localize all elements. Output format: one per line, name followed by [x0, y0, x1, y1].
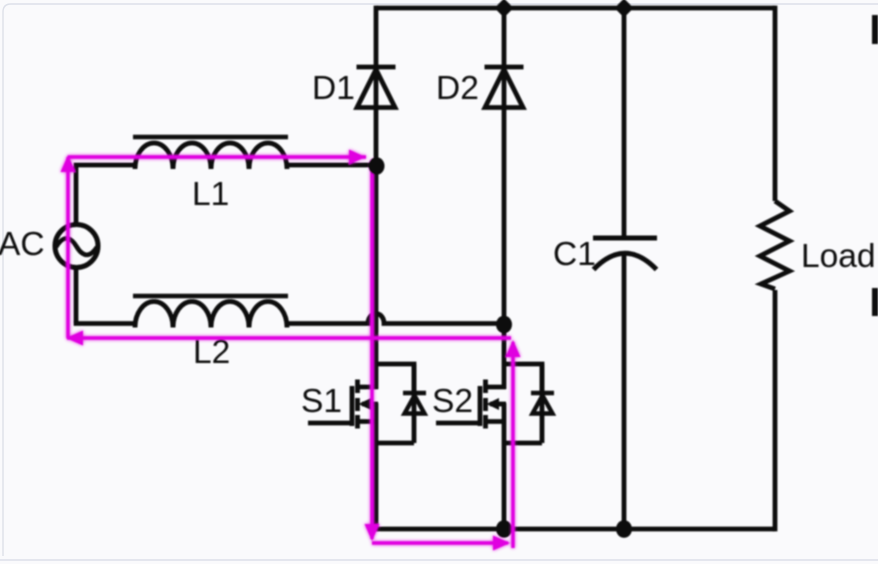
wire magenta S1 down vertical — [370, 160, 373, 539]
wire L2 left segment — [76, 321, 135, 324]
wire L1 left segment — [76, 165, 135, 167]
arrow down at bottom of S1 magenta vertical — [365, 524, 380, 541]
AC sine wave — [56, 238, 97, 255]
wire load branch lower — [773, 290, 778, 531]
transistor S1 body arrow — [359, 398, 372, 410]
junction node top rail / C1 branch — [615, 0, 634, 18]
junction node L2 / S2 branch — [496, 316, 512, 334]
junction node L1 / S1 branch — [369, 157, 385, 175]
diode D2 — [485, 67, 524, 108]
svg-text:D2: D2 — [436, 70, 479, 107]
diode D1 — [357, 67, 396, 108]
transistor Q S1 body-diode loop — [376, 364, 426, 443]
wire magenta top horizontal along L1 — [68, 155, 366, 158]
wire magenta bottom horizontal — [372, 541, 508, 544]
svg-text:D1: D1 — [312, 70, 355, 107]
wire C1 branch lower — [622, 252, 627, 531]
wire D1/S1 branch lower — [374, 403, 379, 531]
wire D2/S2 branch upper — [502, 6, 507, 389]
partial component stub at right edge top — [872, 15, 878, 44]
wire C1 branch upper — [622, 6, 627, 238]
inductor L1 — [135, 143, 287, 169]
wire bottom rail — [376, 527, 775, 532]
arrow up at top of left magenta vertical — [61, 155, 76, 172]
transistor Q S2 body-diode loop — [504, 364, 554, 443]
svg-text:Load: Load — [801, 238, 876, 275]
wire load branch upper — [773, 6, 778, 201]
arrow up at top of S2 magenta vertical — [506, 340, 521, 357]
wire L1 right segment — [287, 163, 376, 168]
junction node bottom rail / C1 branch — [616, 520, 632, 538]
inductor L2 — [135, 302, 287, 328]
wire AC lower — [74, 267, 79, 323]
svg-text:S1: S1 — [301, 383, 342, 420]
arrow left at end of L2 magenta horizontal — [66, 331, 83, 346]
wire D2/S2 branch lower — [502, 403, 507, 531]
wire magenta left vertical — [66, 157, 69, 338]
junction node top rail / D2 branch — [495, 0, 514, 18]
svg-text:S2: S2 — [432, 383, 473, 420]
wire magenta S2 up vertical — [511, 342, 514, 548]
wire top rail — [376, 6, 775, 11]
wire AC upper — [74, 165, 79, 225]
arrow right at end of bottom magenta horizontal — [493, 536, 510, 551]
arrow right at end of top magenta horizontal — [349, 150, 366, 165]
svg-text:L2: L2 — [193, 334, 230, 371]
wire L2 right segment with hop over S1 branch — [287, 314, 504, 324]
wire magenta L2 horizontal — [67, 336, 511, 339]
inductor L2 core bar — [133, 294, 288, 298]
capacitor C1 — [593, 238, 657, 270]
partial component stub at right edge middle — [872, 288, 878, 316]
transistor S1 mosfet symbol — [308, 380, 378, 429]
AC source circle — [55, 225, 98, 268]
wire D1/S1 branch upper — [374, 6, 379, 389]
svg-text:AC: AC — [0, 226, 45, 263]
transistor S2 body arrow — [487, 398, 500, 410]
resistor Load — [760, 201, 790, 289]
svg-text:L1: L1 — [192, 176, 229, 213]
svg-text:C1: C1 — [553, 236, 596, 273]
transistor S2 mosfet symbol — [436, 380, 506, 429]
junction node bottom rail / S2 branch — [496, 520, 512, 538]
current loop (magenta) — [61, 150, 521, 551]
inductor L1 core bar — [133, 135, 288, 139]
